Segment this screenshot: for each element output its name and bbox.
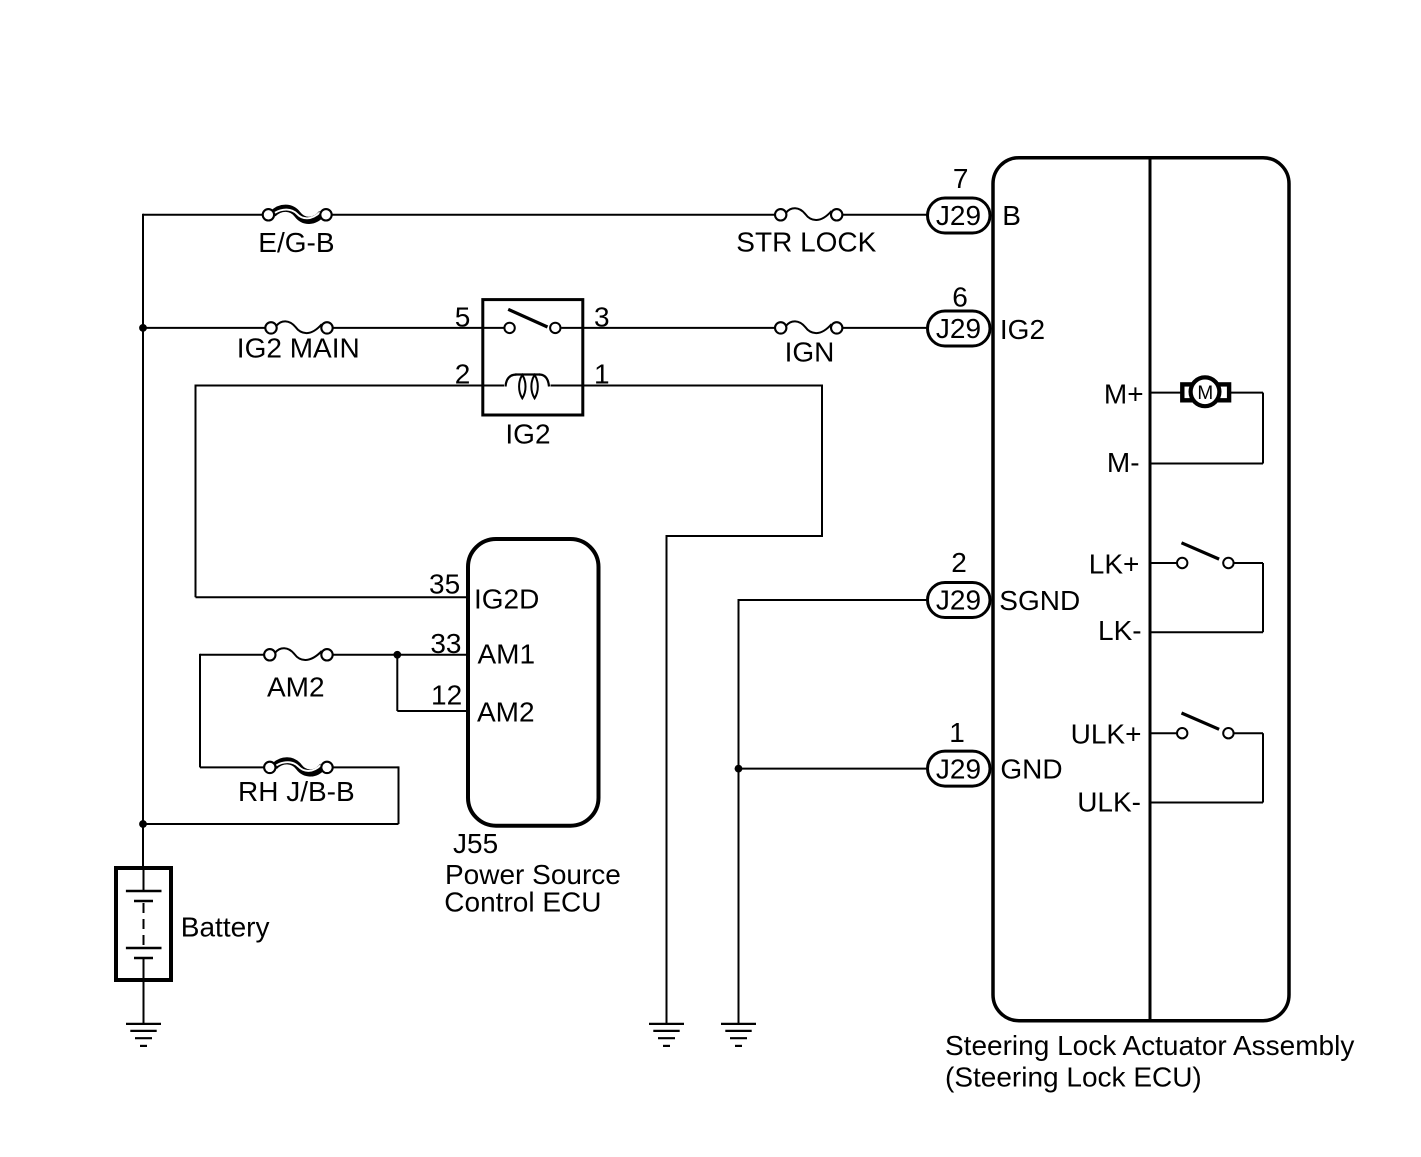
svg-text:ULK-: ULK- — [1077, 786, 1141, 817]
svg-text:B: B — [1002, 200, 1021, 231]
svg-text:J29: J29 — [936, 753, 981, 784]
svg-text:M+: M+ — [1104, 378, 1144, 409]
svg-text:12: 12 — [431, 680, 462, 711]
svg-text:IGN: IGN — [785, 337, 835, 368]
svg-text:IG2 MAIN: IG2 MAIN — [237, 333, 360, 364]
svg-text:AM2: AM2 — [267, 672, 325, 703]
svg-text:5: 5 — [455, 302, 471, 333]
svg-text:J29: J29 — [936, 313, 981, 344]
svg-text:STR LOCK: STR LOCK — [736, 227, 876, 258]
svg-text:M: M — [1197, 383, 1213, 404]
svg-text:ULK+: ULK+ — [1071, 719, 1142, 750]
svg-text:35: 35 — [429, 568, 460, 599]
svg-text:33: 33 — [430, 628, 461, 659]
svg-text:RH J/B-B: RH J/B-B — [238, 776, 355, 807]
svg-text:2: 2 — [951, 547, 967, 578]
svg-text:IG2: IG2 — [505, 419, 550, 450]
svg-text:6: 6 — [952, 282, 968, 313]
svg-text:LK-: LK- — [1098, 615, 1142, 646]
svg-text:IG2D: IG2D — [474, 583, 539, 614]
svg-text:J55: J55 — [453, 828, 498, 859]
svg-text:7: 7 — [953, 163, 969, 194]
svg-text:E/G-B: E/G-B — [258, 227, 334, 258]
svg-text:Control ECU: Control ECU — [444, 887, 601, 918]
svg-text:Battery: Battery — [181, 912, 270, 943]
svg-text:GND: GND — [1000, 754, 1062, 785]
svg-text:M-: M- — [1107, 447, 1140, 478]
svg-text:J29: J29 — [936, 200, 981, 231]
svg-text:3: 3 — [594, 302, 610, 333]
svg-text:1: 1 — [594, 359, 610, 390]
svg-text:Power Source: Power Source — [445, 859, 621, 890]
svg-text:Steering Lock Actuator Assembl: Steering Lock Actuator Assembly — [945, 1030, 1354, 1061]
svg-text:AM2: AM2 — [477, 696, 535, 727]
svg-text:(Steering Lock ECU): (Steering Lock ECU) — [945, 1062, 1202, 1093]
svg-text:SGND: SGND — [999, 585, 1080, 616]
svg-text:2: 2 — [455, 359, 471, 390]
svg-text:IG2: IG2 — [1000, 314, 1045, 345]
svg-text:1: 1 — [949, 717, 965, 748]
svg-text:J29: J29 — [936, 585, 981, 616]
svg-text:AM1: AM1 — [478, 639, 536, 670]
svg-text:LK+: LK+ — [1089, 549, 1140, 580]
